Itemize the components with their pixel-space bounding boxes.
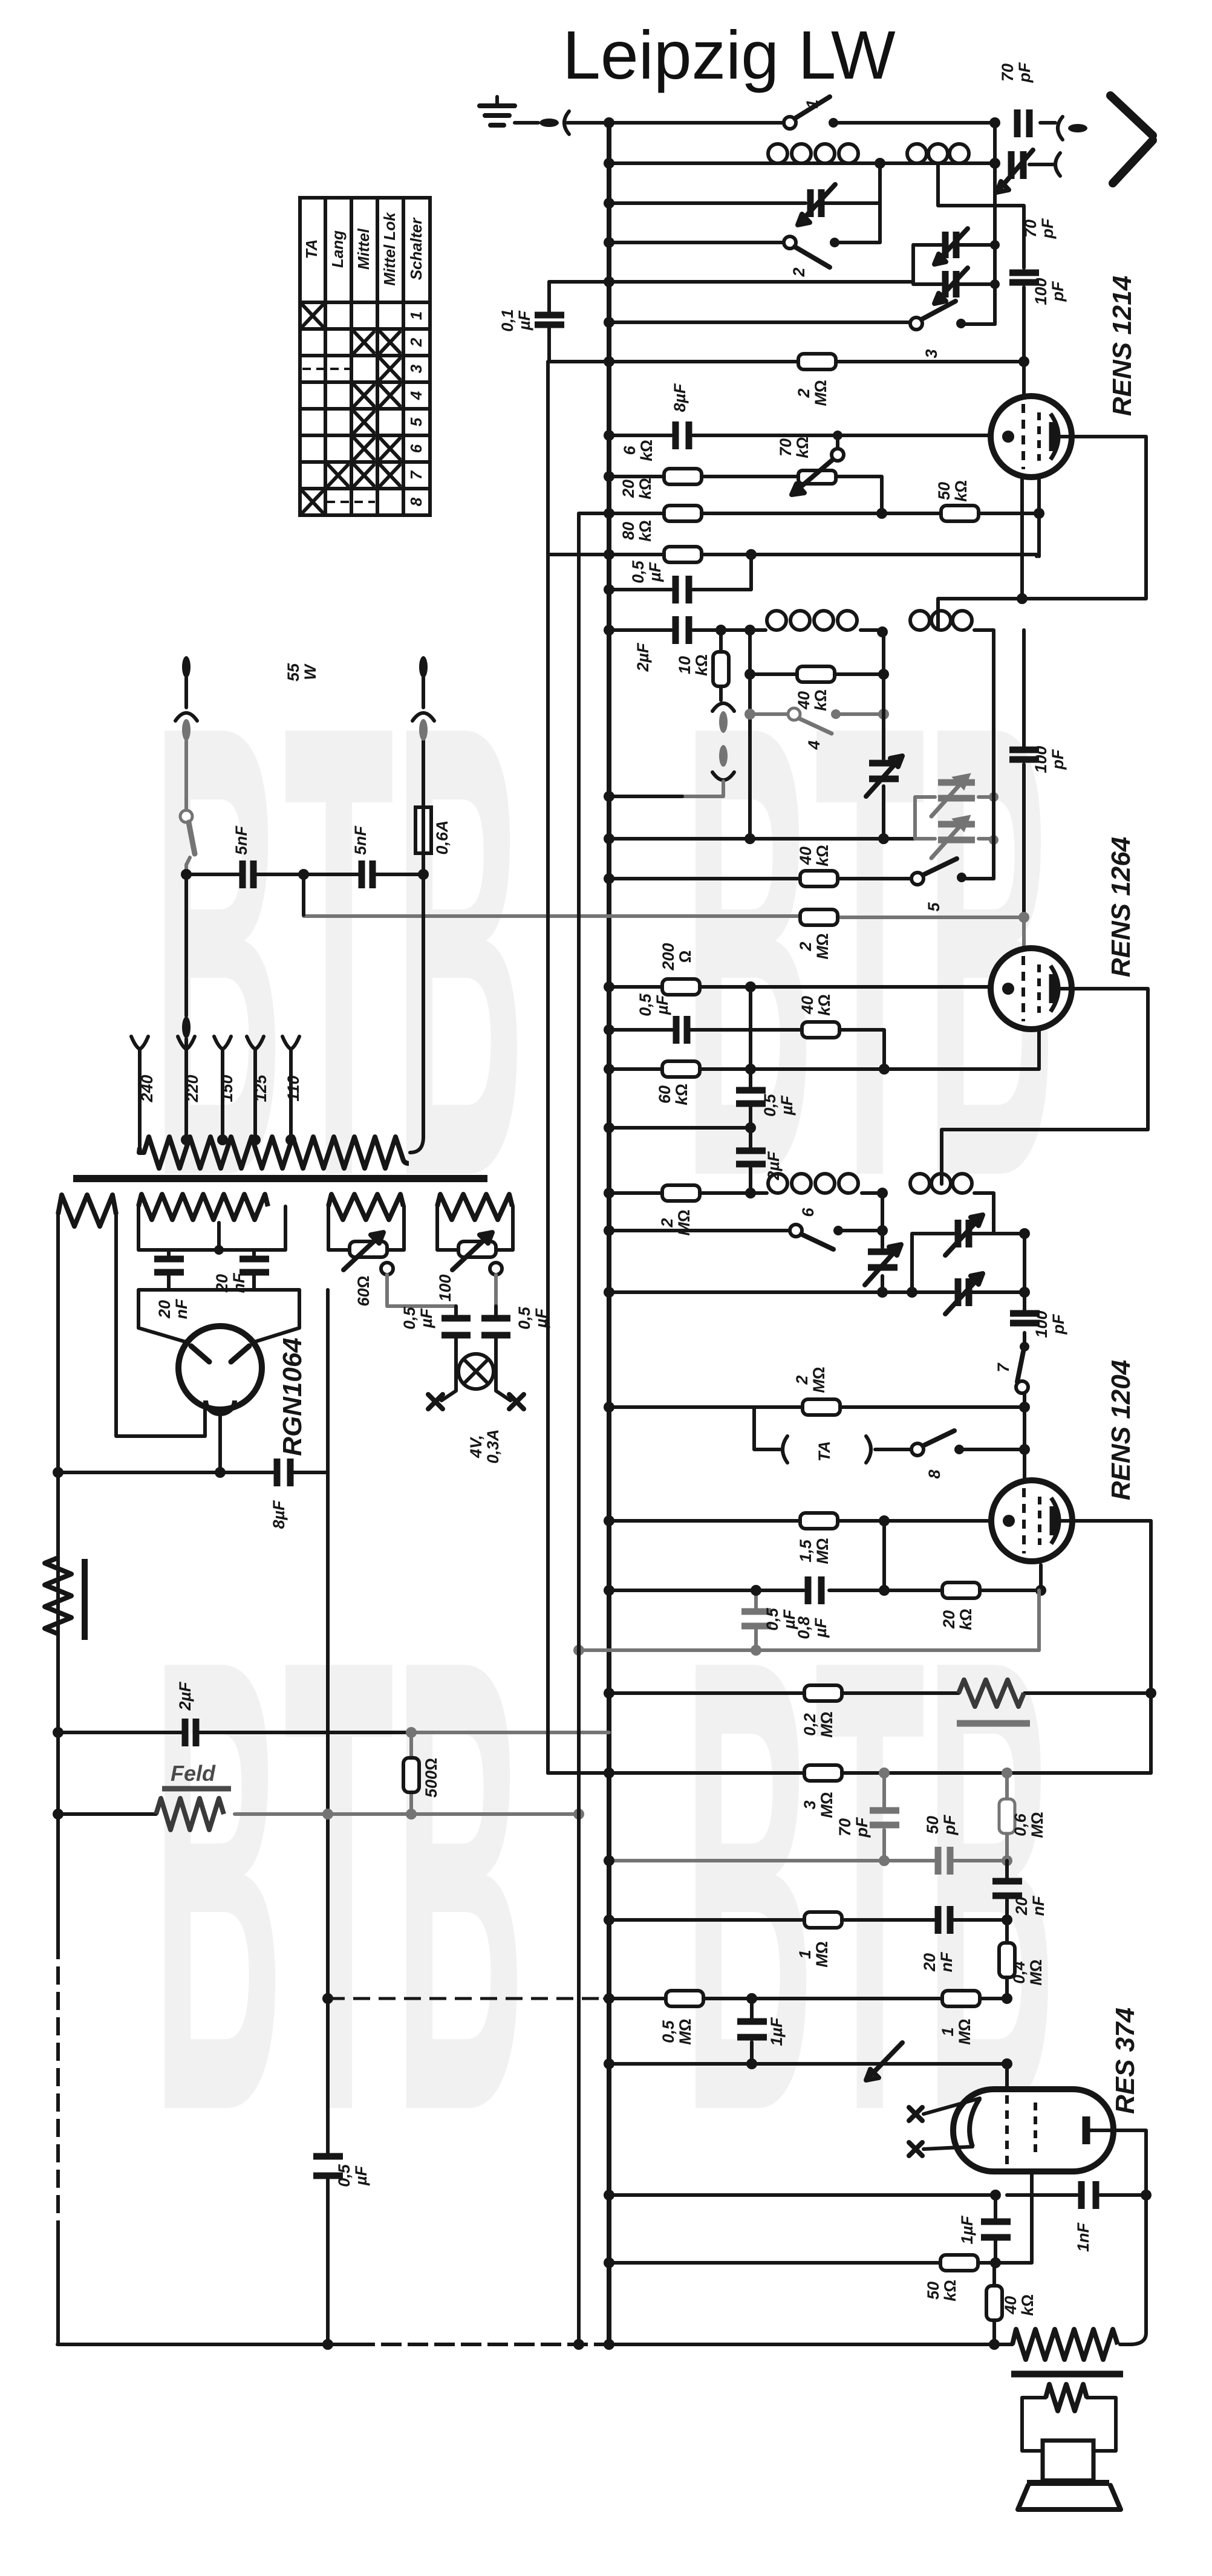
switch mains (180, 810, 195, 874)
svg-text:kΩ: kΩ (636, 520, 654, 542)
node cathode rail10 (1034, 508, 1044, 519)
watermark BTB 1 (152, 591, 526, 1310)
svg-text:1: 1 (939, 2027, 957, 2036)
node 100pF rail7 (1018, 356, 1029, 367)
node mains x700 (418, 869, 429, 880)
node rail2435 x96 (53, 1467, 64, 1478)
wire rail 30 (609, 1290, 1025, 1294)
svg-text:0,6: 0,6 (1011, 1813, 1029, 1836)
wire speaker loop (1022, 2398, 1116, 2451)
secondary S2 (138, 1194, 268, 1220)
wire S2 center tap (217, 1223, 221, 1250)
capacitor 0,5uF x542 (313, 2156, 343, 2176)
svg-text:4: 4 (407, 391, 425, 400)
svg-text:MΩ: MΩ (956, 2018, 974, 2044)
wire x502 down to gray line (302, 874, 305, 915)
resistor 500 Ohm vertical (403, 1732, 419, 1814)
svg-text:kΩ: kΩ (813, 845, 832, 867)
wire coil2 tap down to 100pF line (938, 164, 1024, 268)
wire tube1 cathode vertical (1037, 477, 1041, 556)
wire gray to switch (184, 741, 188, 810)
capacitor 20nF right (239, 1250, 269, 1290)
wire rail 33 grid tube3 (609, 1519, 992, 1523)
capacitor 8uF (676, 421, 689, 449)
fork tap 125 (247, 1036, 264, 1139)
svg-text:1: 1 (407, 311, 425, 320)
wire rail 31 (609, 1405, 1025, 1409)
capacitor 100pF second (1009, 750, 1039, 759)
plug mains left (182, 656, 191, 678)
wire rail 41 grid RES374 (609, 2062, 1007, 2066)
svg-text:Mittel Lok: Mittel Lok (380, 212, 399, 286)
wire rail TA black part (609, 795, 682, 798)
svg-text:0,1: 0,1 (498, 309, 516, 332)
wire S1 right down to RGN (116, 1214, 205, 1436)
svg-text:RGN1064: RGN1064 (278, 1338, 307, 1456)
trimmer cap x1461 (866, 756, 902, 796)
svg-text:kΩ: kΩ (812, 689, 830, 711)
node between coils (875, 158, 885, 169)
speaker frame bar (1027, 2480, 1109, 2486)
cross r4 Mittel (354, 385, 374, 406)
plug antenna (1068, 124, 1087, 132)
wire anode rail RGN (138, 1290, 299, 1342)
wire rail 19 gray long (304, 916, 1024, 917)
svg-text:100: 100 (1032, 278, 1050, 305)
svg-text:Leipzig LW: Leipzig LW (562, 17, 896, 93)
dash r8 (327, 501, 375, 503)
node bus r42 (604, 2190, 614, 2200)
svg-text:TA: TA (815, 1441, 833, 1462)
switch 4 (788, 708, 841, 733)
node gray rail19 (1018, 912, 1029, 923)
wire rail 11 (548, 555, 1037, 556)
svg-text:RENS 1264: RENS 1264 (1106, 837, 1136, 977)
svg-text:1,5: 1,5 (797, 1539, 815, 1563)
cross r1 TA (303, 305, 322, 326)
switch 3 (910, 301, 966, 330)
transformer core (73, 1175, 487, 1182)
wire main bus vertical (607, 123, 611, 2344)
svg-text:3: 3 (801, 1800, 819, 1809)
node 500 bottom (406, 1809, 417, 1820)
node cap gray bottom (751, 1645, 761, 1656)
svg-text:kΩ: kΩ (692, 654, 711, 676)
node bus r31 (604, 1402, 614, 1413)
svg-text:MΩ: MΩ (1027, 1959, 1045, 1985)
potentiometer 70 kOhm (792, 440, 844, 495)
resistor 0,4 MOhm vertical (999, 1920, 1015, 1999)
svg-text:MΩ: MΩ (810, 1367, 828, 1393)
cross r7 Mittel (354, 465, 374, 486)
variable arrow rail41 (866, 2043, 902, 2080)
capacitor 2uF rail13 (676, 616, 689, 644)
node r42 x1646 (990, 2190, 1001, 2200)
node rail1 x1645 (989, 117, 1000, 128)
capacitor 1uF cathode (981, 2195, 1011, 2263)
wire rail 8 grid (609, 434, 992, 437)
svg-text:RENS 1204: RENS 1204 (1106, 1360, 1136, 1500)
svg-text:BTB: BTB (152, 1525, 526, 2245)
svg-text:110: 110 (284, 1075, 302, 1101)
node rail22 x1462 (879, 1064, 890, 1075)
wire vertical x1461 (882, 632, 885, 839)
jack pickup bottom (712, 772, 734, 780)
wire mains rail (186, 873, 423, 876)
node rail14 left (744, 669, 755, 680)
node rail3000 x957 (573, 1809, 584, 1820)
wire rail 24 (609, 1193, 994, 1234)
svg-text:7: 7 (994, 1362, 1012, 1373)
coil L3 (767, 611, 857, 630)
resistor 50 kOhm rail43 (940, 2255, 978, 2271)
svg-text:7: 7 (407, 470, 425, 480)
wire vertical x906 (546, 362, 550, 1773)
node bus r34 (604, 1585, 614, 1596)
node bus r37 (604, 1768, 614, 1778)
fork tap 110 (282, 1036, 299, 1139)
svg-text:0,5: 0,5 (629, 560, 647, 584)
svg-text:MΩ: MΩ (813, 1941, 831, 1967)
trimmer 70pF second (997, 150, 1033, 192)
node bottom x542 (322, 2339, 333, 2350)
node rail24 x1241 (745, 1188, 756, 1199)
svg-text:µF: µF (812, 1617, 830, 1638)
resistor 20 kOhm (664, 506, 702, 521)
node rail2865 x96 (53, 1727, 64, 1738)
capacitor 100pF third (1010, 1313, 1040, 1323)
wire trimmer2 to jack (1029, 163, 1054, 166)
svg-text:pF: pF (1049, 749, 1067, 770)
svg-text:1µF: 1µF (767, 2017, 786, 2046)
speaker magnet (1043, 2441, 1093, 2480)
wire 100pF down to tube top (1022, 287, 1026, 397)
switch 5 (911, 859, 966, 885)
capacitor 70pF antenna (1017, 109, 1029, 137)
capacitor 0,5uF rail21 (676, 1016, 687, 1044)
resistor 50 kOhm (941, 506, 979, 521)
wire wiper 100 down (494, 1275, 498, 1306)
svg-text:0,5: 0,5 (763, 1607, 781, 1631)
svg-text:nF: nF (937, 1951, 956, 1972)
node rail34 x1721 (1035, 1585, 1046, 1596)
svg-text:nF: nF (1029, 1895, 1047, 1916)
resistor bleeder vertical (45, 1558, 71, 1634)
capacitor 2uF field (185, 1719, 196, 1746)
node rail15 left gray (744, 709, 755, 720)
svg-text:TA: TA (302, 239, 321, 259)
svg-text:2: 2 (795, 388, 813, 398)
svg-text:2: 2 (407, 337, 425, 347)
svg-text:80: 80 (619, 522, 637, 540)
trimmer pair B (934, 268, 968, 304)
svg-text:2: 2 (793, 1375, 811, 1385)
svg-text:kΩ: kΩ (636, 478, 654, 499)
wire rail 32 TA (754, 1407, 1025, 1449)
node bottom x957 (573, 2339, 584, 2350)
jack mains right (412, 713, 434, 721)
svg-text:MΩ: MΩ (818, 1711, 836, 1737)
node coils56 (877, 1188, 888, 1199)
wire rail 36 (609, 1691, 1151, 1695)
switch 7 (1016, 1342, 1029, 1393)
node screen stub (1017, 593, 1028, 604)
capacitor 0,5uF gray x1250 (741, 1590, 771, 1650)
wire vertical x1240 bandfilter (748, 630, 752, 839)
svg-text:kΩ: kΩ (637, 440, 656, 461)
x mark filament 1 (909, 2107, 922, 2121)
coil L6 (910, 1174, 972, 1193)
node bus r41 (604, 2058, 614, 2069)
svg-text:5: 5 (407, 417, 425, 426)
svg-text:Feld: Feld (171, 1761, 216, 1786)
node r23 x1241 (745, 1122, 756, 1133)
capacitor 0,1uF (535, 282, 564, 362)
svg-text:kΩ: kΩ (1018, 2294, 1037, 2316)
svg-text:2: 2 (797, 942, 815, 951)
coil L2 (907, 144, 969, 163)
svg-text:3: 3 (407, 364, 425, 373)
wire rail 34 (609, 1565, 1041, 1590)
wire pickup to rail TA (682, 781, 723, 796)
capacitor 5nF left (243, 860, 253, 888)
tube RENS1204 (991, 1480, 1072, 1561)
wire rail 17 (609, 837, 915, 841)
capacitor 0,5uF lamp left (441, 1306, 471, 1355)
fork tap 240 (131, 1036, 148, 1148)
resistor 1 MOhm rail39 (804, 1912, 842, 1928)
svg-text:Lang: Lang (328, 230, 347, 268)
wire rail 2865 (58, 1731, 411, 1734)
svg-text:5nF: 5nF (351, 825, 370, 855)
resistor 0,6 MOhm vertical (999, 1773, 1015, 1861)
node pot wiper on rail8 (833, 431, 842, 440)
node rail14 right (878, 669, 889, 680)
svg-text:50: 50 (935, 482, 953, 500)
svg-text:1: 1 (803, 99, 821, 108)
plug blob right (419, 719, 428, 741)
wire tube2 plate (942, 989, 1148, 1184)
wire rail 15 gray (750, 712, 884, 716)
wire rail 9 (609, 476, 882, 513)
resistor 2 MOhm rail31 (803, 1399, 840, 1415)
svg-text:pF: pF (1049, 1313, 1067, 1335)
jack 70pF (1055, 153, 1060, 176)
wire rail 3000 left (58, 1812, 156, 1816)
capacitor 50pF gray (938, 1847, 950, 1875)
node rail36 x1903 (1145, 1688, 1156, 1699)
node tap 150 (217, 1134, 228, 1145)
wire rail 12 (609, 555, 751, 590)
wire lamp to x marks (441, 1371, 510, 1400)
fuse 0,6A (415, 741, 431, 874)
resistor 40 kOhm rail18 (800, 871, 838, 886)
wire rail 18 (609, 877, 994, 880)
wire rail 37 B+ (548, 1771, 1151, 1775)
wire S2 loop (138, 1206, 285, 1250)
svg-text:0,5: 0,5 (659, 2020, 677, 2043)
potentiometer 100 Ohm (452, 1232, 502, 1275)
capacitor 1uF coupling out (737, 1999, 767, 2064)
node tap 125 (250, 1134, 261, 1145)
watermark BTB 3 (152, 1525, 526, 2245)
resistor 0,5 MOhm (666, 1991, 703, 2006)
resistor 3 MOhm (804, 1765, 842, 1781)
node bus r22 (604, 1064, 614, 1075)
wire vertical x957 (577, 513, 581, 2344)
capacitor 0,5uF lamp right (481, 1306, 510, 1355)
wire rail 13 (609, 630, 994, 633)
lamp 4V 0,3A (456, 1354, 496, 1389)
node bus r21 (604, 1024, 614, 1035)
svg-text:pF: pF (1015, 62, 1034, 83)
svg-text:1: 1 (796, 1950, 814, 1959)
node rail33 x1462 (879, 1515, 890, 1526)
svg-text:20: 20 (920, 1953, 939, 1972)
node gray loop x1643 a (989, 792, 999, 802)
capacitor 20nF left (154, 1250, 184, 1290)
node grid rail31 (1019, 1402, 1030, 1413)
svg-text:pF: pF (853, 1817, 871, 1838)
node bus r5 (604, 276, 614, 287)
node rail37 x1665 gray (1002, 1768, 1012, 1778)
trimmer pair A (934, 229, 968, 264)
wire plug right down (422, 678, 425, 707)
jack mains left (175, 713, 197, 721)
wire rail 2 (609, 161, 995, 165)
switch 1 (784, 97, 838, 129)
wire grid into RES374 (1005, 2064, 1009, 2091)
wire bottom rail (57, 2343, 1012, 2346)
resistor 1 MOhm rail40 (942, 1991, 980, 2006)
jack pickup top (712, 703, 734, 711)
watermark BTB 4 (683, 1525, 1057, 2245)
trimmer cap rail3 (798, 184, 835, 225)
node bus r9 (604, 471, 614, 482)
wire rail 2865 gray part (411, 1731, 609, 1734)
x mark lamp right (509, 1394, 524, 1409)
tube RES374 (924, 2089, 1113, 2171)
node rail35 x957 (573, 1645, 584, 1656)
svg-text:6: 6 (621, 446, 639, 455)
cross r2 MittelLok (380, 332, 400, 353)
node rail13 x1240 (744, 625, 755, 636)
secondary S1 HV (58, 1195, 116, 1226)
fork tap 220 (178, 1036, 195, 1049)
wire mains switch to transformer (186, 874, 423, 1153)
node mains junction (181, 869, 192, 880)
Feld underline (162, 1786, 231, 1792)
node bus r24 (604, 1188, 614, 1199)
node bus top (604, 117, 614, 128)
node r43 x1646 (990, 2257, 1001, 2268)
node bus r18 (604, 873, 614, 884)
node trimmer loop x1645 a (990, 240, 1000, 250)
svg-text:2: 2 (790, 267, 808, 277)
svg-text:1nF: 1nF (1074, 2222, 1092, 2252)
svg-text:0,5: 0,5 (400, 1306, 419, 1330)
capacitor 2uF coupling (736, 1151, 766, 1164)
trimmer upper bf3 (945, 1215, 983, 1255)
node rail22 x1241 (745, 1064, 756, 1075)
svg-text:RES 374: RES 374 (1110, 2008, 1140, 2114)
svg-text:kΩ: kΩ (793, 437, 812, 458)
resistor 2 MOhm rail24 (662, 1185, 700, 1201)
x mark lamp left (428, 1394, 443, 1409)
wire ground to bus (515, 121, 609, 125)
node rail37 x1462 gray (879, 1768, 890, 1778)
wire rail 38 gray (609, 1859, 1007, 1862)
svg-text:0,2: 0,2 (801, 1713, 819, 1736)
node r30 x1694 (1019, 1287, 1030, 1298)
node r17 x1461 (878, 833, 889, 844)
wire rail 1 (609, 121, 1055, 125)
bleeder tap bar (82, 1559, 88, 1640)
svg-text:125: 125 (252, 1074, 270, 1102)
watermark BTB 2 (683, 591, 1057, 1310)
node bus r7 (604, 356, 614, 367)
secondary S4 (437, 1194, 512, 1220)
wire rail 10 cathode (579, 512, 1039, 515)
svg-text:100: 100 (1032, 1310, 1051, 1338)
fork tap 150 (214, 1036, 231, 1139)
svg-text:1µF: 1µF (958, 2215, 976, 2245)
plug mains right (419, 656, 428, 678)
node bus r2 (604, 158, 614, 169)
capacitor 20nF rail39 (938, 1906, 950, 1934)
resistor 200 Ohm (662, 979, 700, 995)
svg-text:6: 6 (407, 444, 425, 453)
svg-text:0,5: 0,5 (636, 993, 654, 1016)
svg-text:4V,: 4V, (467, 1435, 485, 1459)
wire S4 loop (437, 1206, 513, 1250)
capacitor 5nF right (362, 860, 373, 888)
node bus r33 (604, 1515, 614, 1526)
cross r7 MittelLok (380, 465, 400, 486)
node rail20 x1241 (745, 981, 756, 992)
svg-text:50: 50 (924, 1816, 942, 1834)
wire rail 21 (609, 1030, 884, 1069)
node r42 x1895 (1141, 2190, 1152, 2200)
table frame (300, 198, 430, 515)
svg-text:RENS 1214: RENS 1214 (1107, 276, 1137, 416)
wire rail 35 gray (579, 1648, 1039, 1652)
wire rail 5 (549, 280, 913, 284)
cross r7 Lang (328, 465, 348, 486)
cross r2 Mittel (354, 332, 374, 353)
jack TA left (783, 1436, 787, 1463)
svg-text:20: 20 (940, 1610, 958, 1629)
svg-text:240: 240 (138, 1075, 156, 1102)
svg-text:8: 8 (407, 497, 425, 506)
wire plug left down (184, 678, 188, 707)
svg-text:3: 3 (922, 349, 940, 358)
wire S3 loop (328, 1206, 404, 1250)
node bus r30 (604, 1287, 614, 1298)
svg-text:µF: µF (653, 994, 671, 1015)
svg-text:70: 70 (999, 63, 1017, 82)
cross r5 Mittel (354, 412, 374, 432)
node bus r13 (604, 625, 614, 636)
ground (480, 97, 515, 125)
svg-text:0,5: 0,5 (515, 1306, 533, 1330)
node bus r10 (604, 508, 614, 519)
svg-text:20: 20 (619, 480, 637, 498)
node 500 top (406, 1727, 417, 1738)
svg-text:70: 70 (836, 1818, 854, 1836)
node bus r4 (604, 237, 614, 248)
svg-text:100: 100 (1032, 746, 1050, 773)
